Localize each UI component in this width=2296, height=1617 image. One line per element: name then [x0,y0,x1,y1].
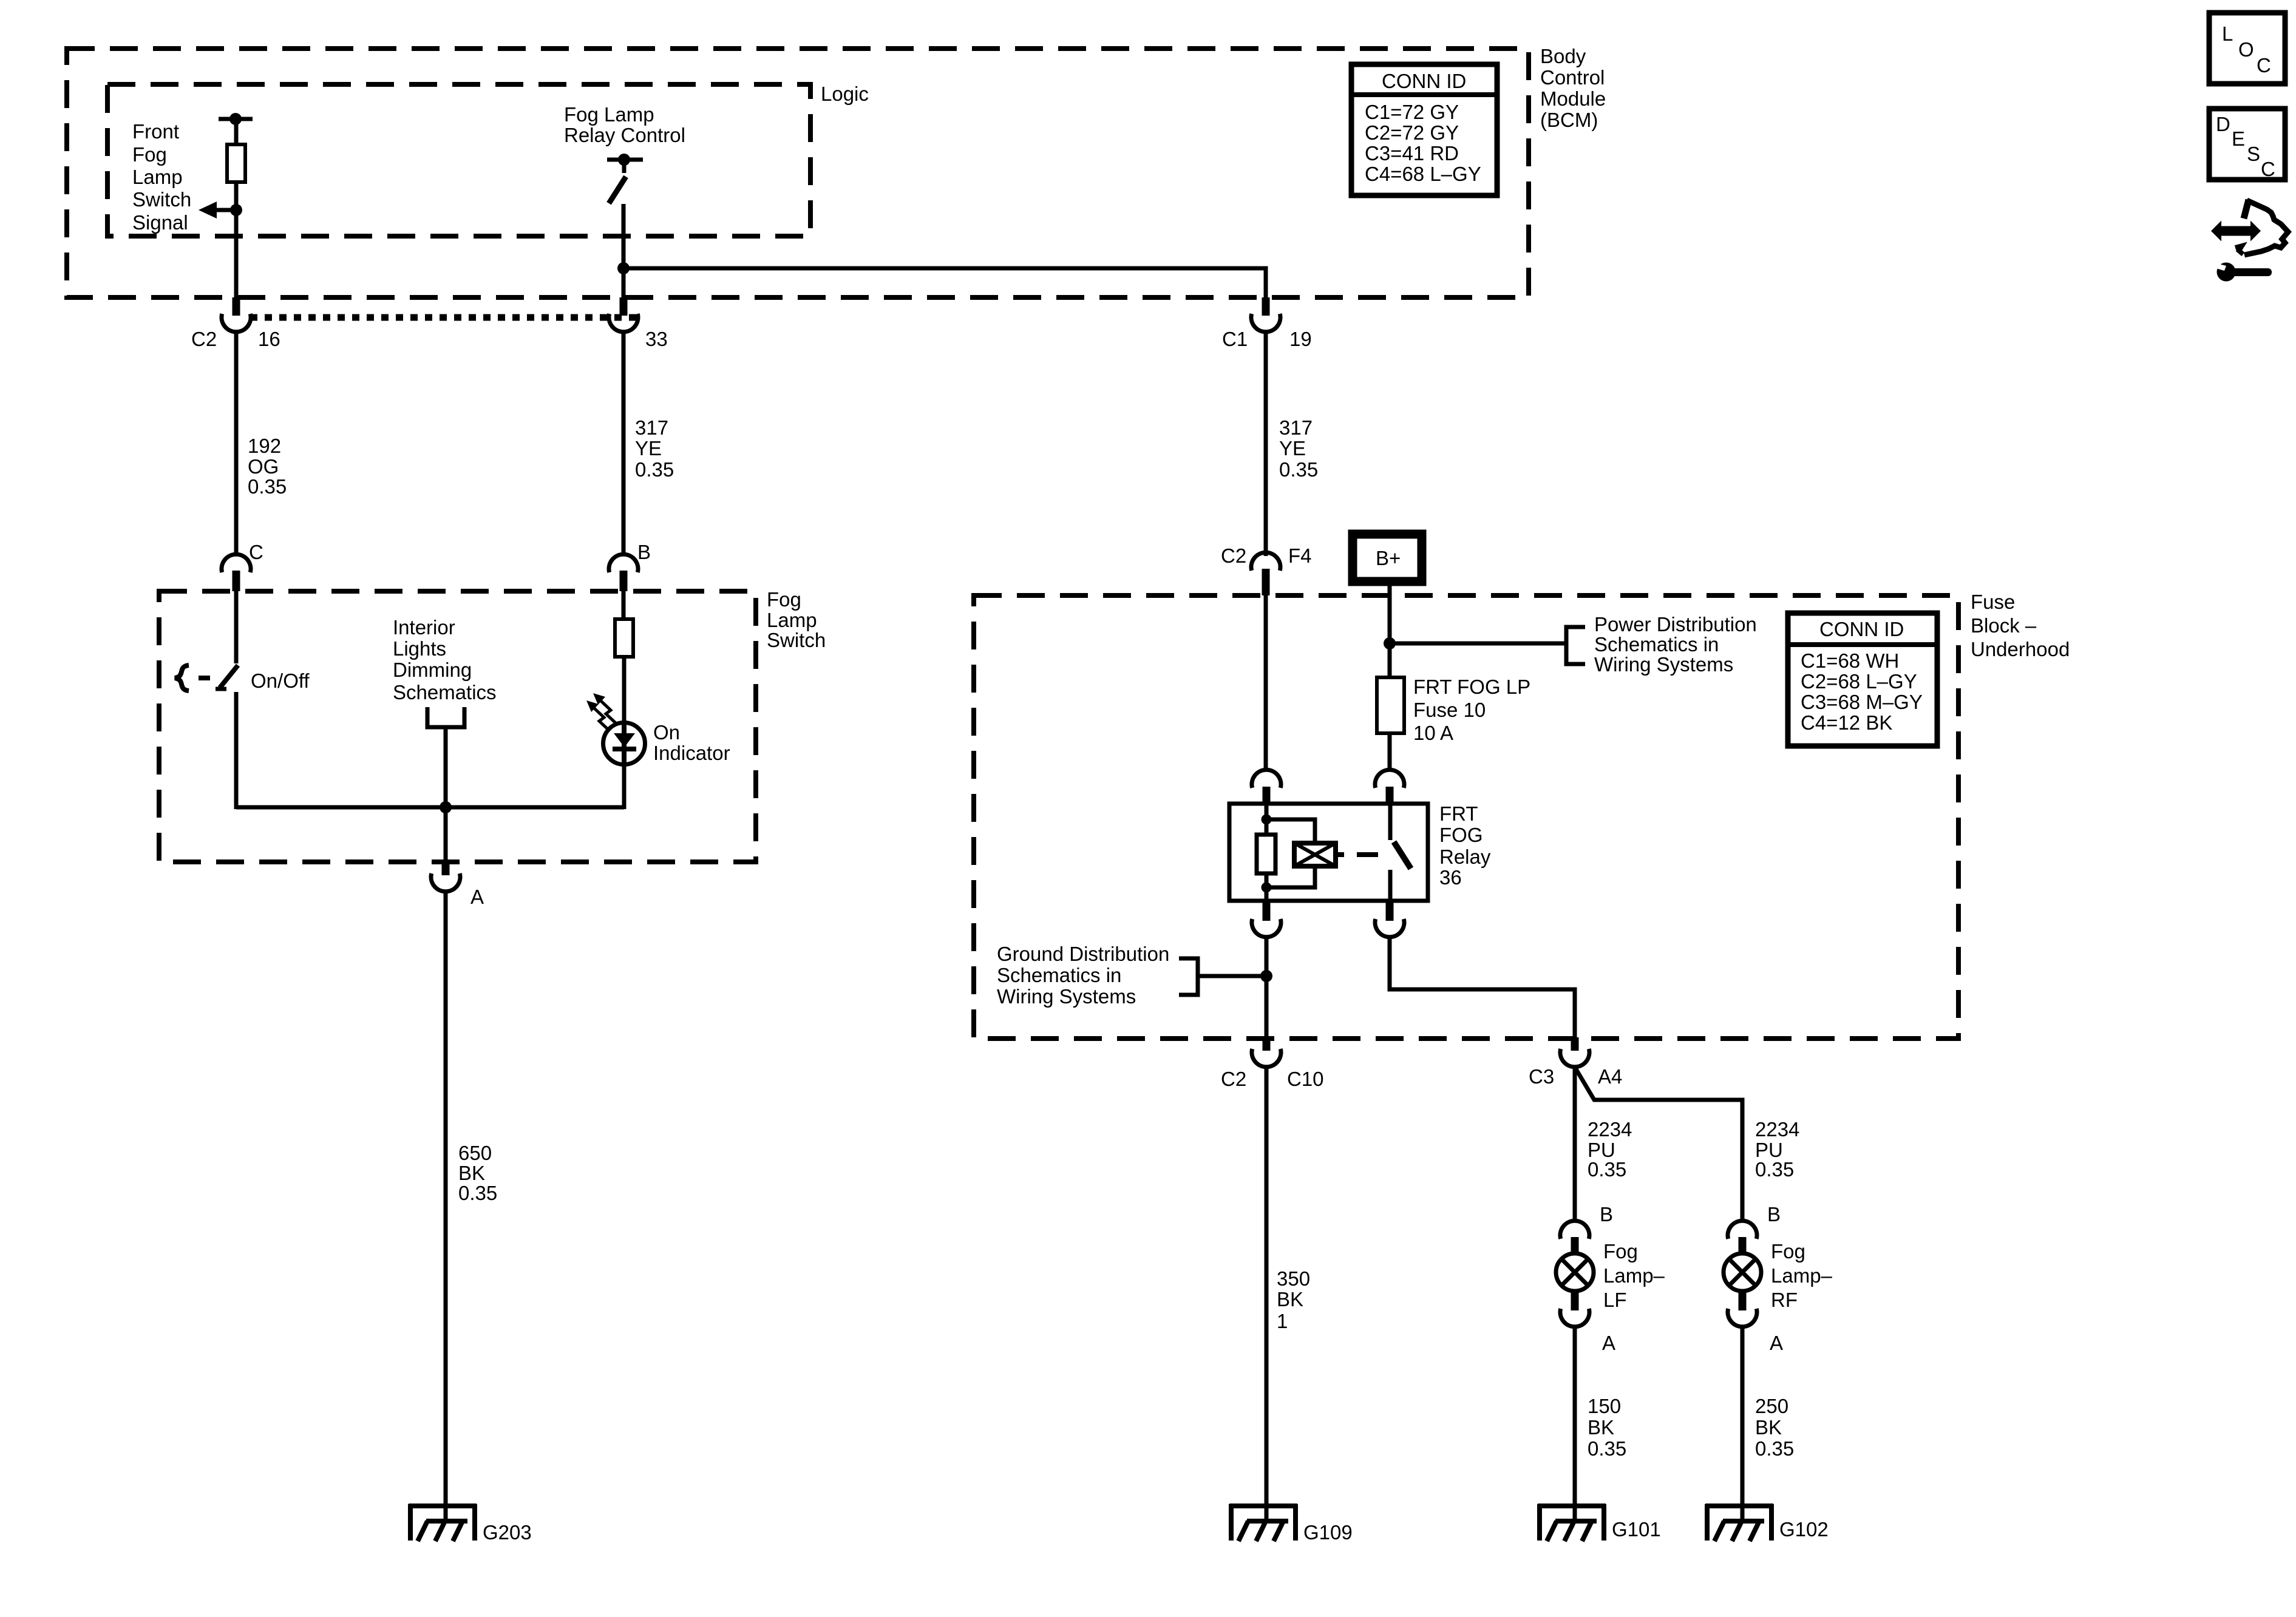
svg-text:B: B [1600,1203,1613,1225]
svg-text:E: E [2232,127,2245,150]
svg-text:Logic: Logic [821,83,869,105]
wire: fuse to relay [1388,733,1392,770]
DESC legend box [2209,109,2285,180]
lamp: Fog Lamp RF [1724,1253,1761,1291]
connector B (LF lamp) [1560,1221,1589,1254]
connector B (fog lamp switch) [609,554,638,591]
svg-text:On/Off: On/Off [251,670,310,692]
relay: FRT FOG relay box [1229,804,1428,901]
relay connector top-right [1375,770,1404,804]
Fuse Block - Underhood dashed box [974,595,1958,1039]
svg-text:C: C [249,541,263,563]
svg-text:C2: C2 [1221,1068,1246,1090]
relay actuation dashed link [1336,852,1378,857]
svg-text:D: D [2216,113,2230,135]
connector C1 pin 19 [1251,297,1280,332]
wire: relay output to C3-A4 [1390,935,1575,1037]
relay coil resistor [1257,804,1275,901]
ground G101 [1538,1504,1606,1541]
wire: bus to connector A [444,807,448,862]
junction dot on tick [229,113,242,125]
svg-text:16: 16 [258,328,280,350]
Logic sub-box dashed [107,84,810,236]
relay coil crossed box [1294,843,1336,866]
relay switch bottom pin [1388,870,1393,901]
wire: relay bottom-left to C2-C10 [1265,935,1269,1037]
svg-text:C3: C3 [1529,1065,1554,1088]
mechanical linkage curl [175,665,189,691]
wire: resistor to LED [622,657,627,723]
bracket: interior lights dimming [427,707,464,727]
connector C2 pin C10 [1252,1037,1281,1067]
wire: 317 YE 0.35 (BCM to fuse block) [1264,332,1268,556]
svg-text:B+: B+ [1376,547,1401,569]
relay switch top pin [1388,804,1393,840]
junction dot: ground distribution [1260,970,1272,982]
connector C3 pin A4 [1560,1037,1589,1067]
svg-text:CONN ID: CONN ID [1819,618,1904,640]
relay connector top-left [1252,770,1281,804]
wire: tick to resistor [234,119,239,144]
node: relay control top tick [607,158,643,162]
LED light arrows [586,693,616,730]
wire: into LED branch [622,591,626,619]
connector C2 pin 16 [222,297,251,332]
wire: 350 BK 1 [1265,1067,1269,1520]
resistor: front fog lamp switch signal pull-up [227,144,245,182]
wire: A4 to LF lamp [1573,1067,1577,1222]
fuse: FRT FOG LP [1377,677,1404,733]
LED: on indicator [603,723,645,765]
BCM module dashed box [67,49,1529,297]
relay connector bottom-right [1375,901,1404,937]
svg-text:S: S [2247,143,2260,165]
junction dot at arrow [230,204,242,216]
svg-text:C2: C2 [1221,544,1246,567]
resistor: on indicator [615,619,633,657]
svg-text:A: A [1770,1332,1783,1354]
switch blade: on/off [220,665,238,688]
svg-text:L: L [2222,22,2233,45]
Fog Lamp Switch dashed box [159,591,756,862]
wire: A4 to RF lamp [1575,1067,1742,1222]
BCM CONN ID table [1351,64,1497,195]
svg-text:C10: C10 [1287,1068,1324,1090]
svg-text:G102: G102 [1779,1518,1829,1541]
connector A (RF lamp) [1728,1291,1757,1327]
Fuse block CONN ID table [1788,613,1937,746]
wire: 317 YE 0.35 (switch branch) [622,332,626,556]
svg-text:G203: G203 [483,1521,532,1544]
mechanical linkage dash [199,676,210,680]
svg-text:33: 33 [645,328,668,350]
wire: B+ to fuse [1388,581,1392,677]
junction dot: relay control branch [617,262,630,274]
connector line C2 dotted [250,314,640,321]
junction dot: B+ distribution [1384,637,1396,649]
wire: to power distribution bracket [1390,642,1564,646]
connector A (LF lamp) [1560,1291,1589,1327]
connector A (fog lamp switch) [431,862,460,892]
svg-text:CONN ID: CONN ID [1382,70,1466,92]
wire: 250 BK 0.35 [1741,1327,1745,1520]
lamp: Fog Lamp LF [1556,1253,1594,1291]
svg-text:G101: G101 [1612,1518,1661,1541]
wire: 192 OG 0.35 [234,332,239,556]
svg-text:C1: C1 [1222,328,1248,350]
svg-text:19: 19 [1289,328,1312,350]
B+ power box [1353,534,1422,581]
wire: 150 BK 0.35 [1573,1327,1577,1520]
svg-text:G109: G109 [1303,1521,1353,1544]
junction dot: bus [440,801,452,813]
ground G203 [409,1504,477,1541]
icon: service hand with wrench [2211,200,2288,282]
svg-text:F4: F4 [1288,544,1312,567]
svg-text:A4: A4 [1598,1065,1622,1088]
ground G109 [1229,1504,1297,1541]
relay coil loop [1266,819,1315,843]
junction dot on tick [618,154,630,166]
wire: LED to bus [622,764,627,809]
connector C2 pin F4 [1251,552,1280,595]
connector B (RF lamp) [1728,1221,1757,1254]
bracket: ground distribution [1179,958,1198,995]
wire: bracket stub to bus [444,727,448,807]
wire: on/off switch to bus [234,692,239,809]
wire: 650 BK 0.35 [444,892,448,1520]
LOC legend box [2209,13,2285,84]
wire: branch to C1-19 [623,268,1266,297]
wire: into on/off switch [234,591,239,663]
arrow: signal direction [199,202,236,219]
bracket: power distribution [1566,627,1585,664]
ground G102 [1705,1504,1773,1541]
wire: bracket to relay output [1197,974,1266,978]
node: switch signal top tick [219,117,253,121]
wire: resistor to arrow node [234,182,239,297]
wire: below relay control switch [622,204,626,297]
wire: C2-F4 to relay [1264,595,1268,770]
svg-text:C: C [2261,158,2275,180]
connector C (fog lamp switch) [222,554,251,591]
svg-text:A: A [1602,1332,1615,1354]
svg-text:O: O [2238,38,2254,61]
connector C2 pin 33 [609,297,638,332]
svg-text:B: B [637,541,651,563]
wire: switch bus [236,805,624,810]
switch blade: relay control [609,177,626,203]
svg-text:C2: C2 [191,328,217,350]
switch: fog lamp relay control stub [622,160,627,173]
switch foot contact [216,687,226,691]
svg-text:A: A [470,886,484,908]
svg-text:C: C [2257,54,2271,76]
svg-text:B: B [1767,1203,1781,1225]
relay connector bottom-left [1252,901,1281,937]
relay switch blade [1394,842,1411,869]
